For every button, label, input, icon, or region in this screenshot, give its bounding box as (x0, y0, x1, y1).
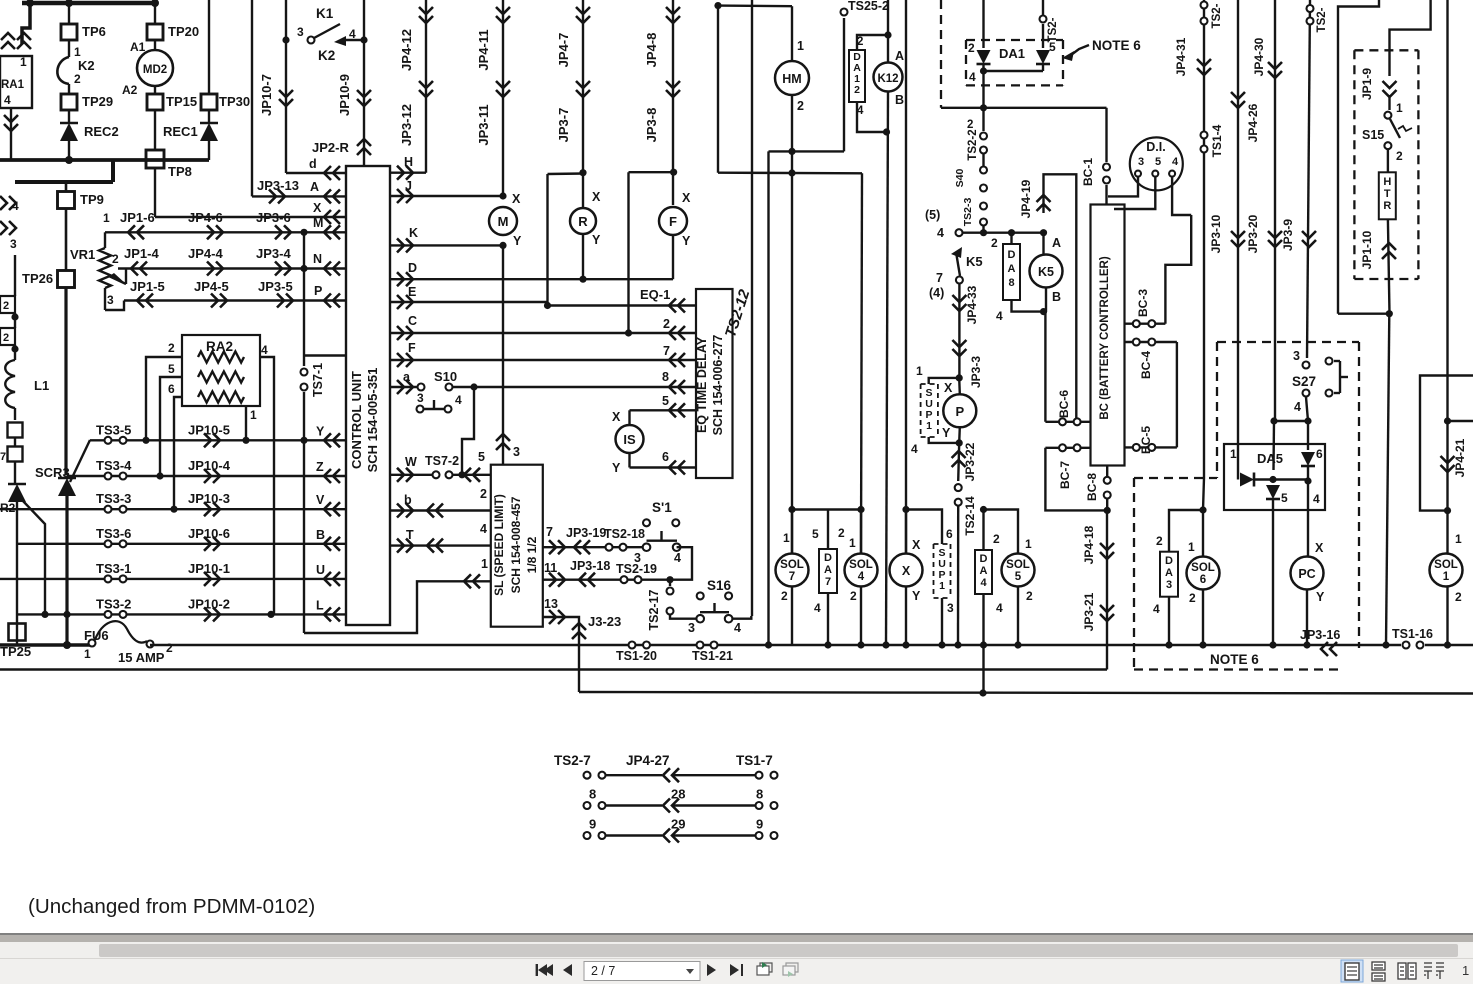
svg-text:4: 4 (858, 571, 865, 583)
wire x752 long vertical (751, 0, 753, 616)
test point TP20 (147, 24, 163, 40)
svg-text:JP10-2: JP10-2 (188, 596, 230, 611)
relay K5 coil (1042, 233, 1044, 254)
test point TP25 (9, 624, 26, 641)
wire MD2 branch upper (154, 3, 156, 24)
wire BC-1 drop (1105, 108, 1107, 162)
connector JP3-5 arrow (277, 294, 284, 308)
wire row L TS3-2 JP10-2 (18, 613, 346, 615)
svg-text:(4): (4) (929, 286, 944, 300)
vertical service wire x547 (546, 174, 548, 306)
svg-text:F: F (669, 214, 677, 229)
wire x793 SOL7 column (791, 173, 793, 554)
svg-text:X: X (612, 410, 621, 424)
svg-text:SOL: SOL (1434, 559, 1458, 571)
wire TS25-2 drop (843, 18, 845, 151)
svg-text:W: W (405, 455, 417, 469)
terminal row 3 of jumper block (584, 832, 591, 839)
svg-text:4: 4 (911, 442, 918, 456)
svg-text:4: 4 (455, 393, 462, 407)
svg-text:TS1-16: TS1-16 (1392, 627, 1433, 641)
wire x906 long vertical (905, 0, 907, 554)
svg-text:7: 7 (936, 271, 943, 285)
dashed boundary x941 (940, 0, 942, 108)
svg-text:2: 2 (993, 532, 1000, 546)
svg-text:JP3-12: JP3-12 (399, 104, 414, 146)
wire bus1 main solenoid bus (150, 644, 1401, 646)
terminal TS1-20 (629, 642, 636, 649)
diode assembly DA5 box (1224, 444, 1325, 510)
svg-text:T: T (1384, 188, 1391, 200)
wire RA1 riser staircase (22, 3, 30, 44)
svg-text:TS2-18: TS2-18 (604, 527, 645, 541)
column JP4-30 JP3-20 (1274, 0, 1276, 421)
svg-text:Y: Y (513, 234, 522, 248)
wire DI pin3 (1108, 177, 1138, 196)
svg-text:TS1-21: TS1-21 (692, 649, 733, 663)
svg-text:K5: K5 (1038, 265, 1054, 279)
svg-text:TS7-2: TS7-2 (425, 454, 459, 468)
svg-text:Z: Z (316, 460, 324, 474)
svg-text:JP10-9: JP10-9 (337, 74, 352, 116)
svg-text:5: 5 (478, 450, 485, 464)
motor lead JP4-11 JP3-11 column (502, 0, 504, 196)
svg-text:2: 2 (854, 84, 860, 96)
resistor network RA2 box (182, 335, 260, 406)
svg-text:1: 1 (103, 211, 110, 225)
svg-text:d: d (309, 157, 317, 171)
connector JP10-6 arrow (204, 537, 211, 551)
svg-text:1: 1 (1443, 571, 1450, 583)
svg-text:TP8: TP8 (168, 164, 192, 179)
svg-text:JP4-8: JP4-8 (644, 33, 659, 68)
svg-text:15 AMP: 15 AMP (118, 650, 165, 665)
svg-text:6: 6 (1200, 574, 1206, 586)
terminal BC-3 row (1125, 323, 1166, 325)
svg-text:A: A (1165, 567, 1173, 579)
svg-text:3: 3 (107, 293, 114, 307)
svg-text:D.I.: D.I. (1146, 140, 1165, 154)
resistor RA1 box (0, 56, 32, 108)
svg-text:JP4-4: JP4-4 (188, 246, 223, 261)
wire right staircase upper (1338, 0, 1379, 314)
svg-text:13: 13 (544, 597, 558, 611)
diode DA1 right (1042, 24, 1044, 48)
wire HM top link (791, 6, 793, 61)
svg-text:SCH 154-008-457: SCH 154-008-457 (509, 496, 523, 593)
next page (707, 964, 716, 976)
svg-text:N: N (313, 252, 322, 266)
wire S16 to x752 riser (732, 616, 751, 619)
svg-text:H: H (1383, 176, 1391, 188)
svg-text:4: 4 (1172, 156, 1179, 168)
connector JP10-9 chevron (357, 90, 371, 97)
svg-text:3: 3 (297, 25, 304, 39)
svg-text:BC-8: BC-8 (1085, 473, 1099, 501)
window icons (757, 963, 772, 975)
svg-text:A: A (1008, 263, 1016, 275)
lead JP4-8 JP3-8 column (672, 0, 674, 205)
wire row N JP1-4 JP4-4 JP3-4 (118, 267, 346, 269)
wire JP10-7 drop from K1 (285, 40, 287, 173)
connector JP10-2 arrow (204, 607, 211, 621)
svg-text:1: 1 (1462, 963, 1469, 978)
connector JP3-6 arrow (275, 225, 282, 239)
svg-text:K5: K5 (966, 254, 983, 269)
svg-text:JP3-8: JP3-8 (644, 108, 659, 143)
vertical B service wire x304 (303, 232, 305, 355)
connector JP10-5 arrow (204, 433, 211, 447)
svg-text:4: 4 (1294, 400, 1301, 414)
right layout icons (1341, 960, 1363, 982)
svg-text:2: 2 (850, 589, 857, 603)
wire S'1 to TS2-19 loop (670, 547, 692, 580)
svg-text:6: 6 (946, 527, 953, 541)
svg-text:JP3-19: JP3-19 (566, 526, 606, 540)
test point TP30 (201, 94, 217, 110)
svg-text:1: 1 (250, 408, 257, 422)
svg-text:1: 1 (783, 531, 790, 545)
svg-text:2: 2 (3, 332, 9, 344)
wire dot row y509.5 (792, 508, 828, 510)
svg-text:TS2-17: TS2-17 (647, 589, 661, 630)
wire right bracket y375 (1420, 376, 1473, 511)
wire RA2 pin5 to Z row (160, 377, 182, 476)
resistor RA2 element 3 (198, 392, 244, 403)
wire M column to SL box (502, 245, 504, 464)
svg-text:4: 4 (996, 309, 1003, 323)
svg-text:8: 8 (589, 787, 596, 802)
svg-text:(5): (5) (925, 208, 940, 222)
wire RA1 to bus (10, 108, 12, 160)
svg-text:BC (BATTERY CONTROLLER): BC (BATTERY CONTROLLER) (1099, 256, 1111, 420)
node L row junctions (41, 611, 48, 618)
svg-text:Y: Y (1316, 590, 1325, 604)
connector JP10-4 arrow (204, 469, 211, 483)
wire JP4-19 link (1044, 174, 1077, 422)
svg-text:8: 8 (1008, 277, 1014, 289)
svg-text:A: A (824, 564, 832, 576)
svg-text:1: 1 (1396, 101, 1403, 115)
svg-text:A: A (310, 180, 319, 194)
svg-text:3: 3 (513, 445, 520, 459)
EQ time delay box SCH 154-006-277 (696, 289, 733, 478)
svg-text:4: 4 (734, 621, 741, 635)
lead JP4-12 JP3-12 column (425, 0, 427, 173)
connector JP4-21 chevron (1441, 456, 1455, 463)
svg-text:2: 2 (781, 589, 788, 603)
wire R2 gate diagonal (22, 500, 45, 614)
svg-text:Y: Y (612, 461, 621, 475)
wire x983 column mid (982, 108, 984, 131)
connector D.I. (1130, 137, 1183, 190)
svg-text:2: 2 (1455, 590, 1462, 604)
wire K5 row (962, 231, 1044, 233)
svg-text:TS3-4: TS3-4 (96, 458, 132, 473)
svg-text:A1: A1 (130, 40, 146, 54)
node top-left junctions (26, 0, 34, 7)
svg-text:X: X (944, 381, 953, 395)
svg-text:BC-1: BC-1 (1081, 158, 1095, 186)
terminal TS2-19 (621, 576, 628, 583)
svg-text:1: 1 (797, 39, 804, 53)
svg-text:X: X (313, 201, 322, 215)
wire column A lower to SOL6 (1203, 478, 1204, 510)
svg-text:3: 3 (688, 621, 695, 635)
svg-text:SCH 154-006-277: SCH 154-006-277 (711, 335, 725, 436)
svg-text:S15: S15 (1362, 128, 1384, 142)
wire BC-3 bracket to DI (1165, 215, 1191, 324)
svg-text:3: 3 (947, 601, 954, 615)
test point TP6 (61, 24, 77, 40)
svg-text:X: X (902, 564, 911, 578)
connector 3 chevron into SL (496, 443, 510, 450)
wire row M JP1-6 JP4-6 JP3-6 (105, 231, 346, 233)
wire row V TS3-3 JP10-3 (0, 508, 346, 510)
terminal TS3-2 (105, 611, 112, 618)
svg-text:7: 7 (0, 451, 6, 463)
svg-text:4: 4 (996, 601, 1003, 615)
motor MD2 (137, 50, 173, 86)
svg-text:JP10-7: JP10-7 (259, 74, 274, 116)
connector JP3-4 arrow (275, 262, 282, 276)
connector J3-23 chevron (572, 632, 586, 639)
svg-text:A: A (1052, 236, 1061, 250)
svg-text:6: 6 (1316, 447, 1323, 461)
column TS2 JP3-9 S27 (1307, 0, 1310, 358)
svg-text:1: 1 (1455, 532, 1462, 546)
svg-text:4: 4 (1153, 602, 1160, 616)
svg-text:4: 4 (937, 226, 944, 240)
svg-text:1: 1 (84, 647, 91, 661)
first page button (536, 964, 572, 976)
connector chevrons above RA1 (1, 42, 15, 49)
svg-text:JP4-31: JP4-31 (1174, 37, 1188, 76)
svg-text:Y: Y (912, 589, 921, 603)
rectifier REC2 (68, 110, 70, 122)
column JP4-31 TS1-4 JP3-10 (1203, 0, 1205, 478)
svg-text:RA1: RA1 (1, 79, 25, 91)
svg-text:X: X (1315, 541, 1324, 555)
column JP4-26 JP3-10 (1237, 0, 1239, 444)
svg-text:7: 7 (663, 344, 670, 358)
wire S10 to TS7-2 jog (462, 387, 474, 475)
terminal TS7-2 (433, 471, 440, 478)
terminal BC-6 row (1045, 421, 1090, 423)
svg-text:Y: Y (592, 233, 601, 247)
svg-text:2: 2 (1189, 591, 1196, 605)
svg-text:4: 4 (1313, 492, 1320, 506)
terminal TS3-6 (105, 540, 112, 547)
svg-text:JP1-4: JP1-4 (124, 246, 159, 261)
wire DA12 feeder (857, 35, 888, 50)
svg-text:2: 2 (838, 526, 845, 540)
svg-text:4: 4 (480, 522, 487, 536)
svg-text:VR1: VR1 (70, 247, 95, 262)
svg-text:3: 3 (10, 237, 17, 251)
wire left rail upper segment (14, 255, 16, 296)
svg-text:IS: IS (623, 432, 636, 447)
wire thick bottom bus left (0, 643, 90, 647)
svg-text:TS2-14: TS2-14 (963, 496, 977, 536)
svg-text:JP4-11: JP4-11 (476, 29, 491, 70)
speed limit box SL SCH 154-008-457 (491, 465, 543, 627)
svg-text:PC: PC (1298, 567, 1315, 581)
wire JP4-21 column (1446, 0, 1448, 649)
svg-text:L1: L1 (34, 378, 49, 393)
svg-text:2: 2 (797, 99, 804, 113)
svg-text:4: 4 (814, 601, 821, 615)
svg-text:BC-3: BC-3 (1136, 289, 1150, 317)
wire row Y TS3-5 JP10-5 (90, 439, 346, 441)
svg-text:JP4-27: JP4-27 (626, 753, 670, 768)
connector JP3-3 chevron (952, 340, 966, 347)
wire row B TS3-6 JP10-6 (18, 543, 346, 545)
svg-text:TP30: TP30 (219, 94, 250, 109)
svg-text:SOL: SOL (849, 559, 873, 571)
wire S27 to DA5 (1274, 420, 1308, 422)
terminal TS3-1 (105, 575, 112, 582)
svg-text:1: 1 (1188, 540, 1195, 554)
svg-text:JP4-18: JP4-18 (1082, 525, 1096, 564)
svg-text:8: 8 (662, 370, 669, 384)
terminal TS2 top right (1040, 16, 1047, 23)
wire top-left bus (22, 1, 155, 6)
svg-text:K12: K12 (877, 73, 898, 85)
dashed boundary outer (1217, 341, 1359, 343)
svg-text:D: D (1165, 555, 1173, 567)
svg-text:JP3-18: JP3-18 (570, 559, 610, 573)
connector JP4-6 arrow (207, 225, 214, 239)
svg-text:2: 2 (663, 317, 670, 331)
svg-text:9: 9 (589, 817, 596, 832)
wire y313 link (1338, 313, 1389, 315)
test point TP9 (65, 182, 68, 193)
svg-text:6: 6 (662, 450, 669, 464)
terminal BC-5 row (1125, 446, 1177, 448)
svg-text:4: 4 (980, 577, 987, 589)
wire DI pin4 (1172, 177, 1191, 215)
svg-text:7: 7 (789, 571, 795, 583)
svg-text:L: L (316, 598, 324, 612)
wire row Z TS3-4 JP10-4 (67, 475, 346, 477)
svg-text:JP10-5: JP10-5 (188, 422, 230, 437)
svg-text:2: 2 (991, 236, 998, 250)
svg-text:REC1: REC1 (163, 124, 198, 139)
svg-text:1: 1 (849, 536, 856, 550)
svg-text:D: D (1008, 249, 1016, 261)
wire RA2 pin2 to Y row (146, 357, 182, 440)
svg-text:BC-6: BC-6 (1057, 390, 1071, 418)
wire riser x113 (111, 160, 115, 182)
svg-text:SCH 154-005-351: SCH 154-005-351 (365, 368, 380, 473)
UI separator line (0, 933, 1473, 935)
svg-text:JP4-33: JP4-33 (965, 285, 979, 324)
svg-text:EQ TIME DELAY: EQ TIME DELAY (695, 336, 709, 433)
svg-text:TS2-: TS2- (1211, 3, 1223, 28)
scrollbar track (0, 942, 1473, 958)
svg-text:HM: HM (782, 72, 801, 86)
svg-text:D: D (980, 553, 988, 565)
svg-text:X: X (682, 191, 691, 205)
svg-text:REC2: REC2 (84, 124, 119, 139)
connector JP10-7 chevron (279, 90, 293, 97)
svg-text:X: X (512, 192, 521, 206)
wire TP9 to TP26 (65, 208, 68, 272)
test point TP29 (68, 84, 70, 94)
svg-text:JP4-7: JP4-7 (556, 33, 571, 68)
svg-text:6: 6 (168, 382, 175, 396)
wire bus3 (579, 692, 1473, 694)
wire bus y107.8 (941, 107, 1107, 109)
svg-text:TS2-7: TS2-7 (554, 753, 591, 768)
diode DA1 left (982, 0, 984, 48)
terminal TS25-2 (841, 9, 848, 16)
svg-text:TS2-2: TS2-2 (967, 129, 979, 160)
svg-text:JP3-9: JP3-9 (1281, 219, 1295, 251)
connector JP10-1 arrow (204, 572, 211, 586)
wire column C upper feed (1272, 421, 1275, 470)
terminal row 1 of jumper block (584, 772, 591, 779)
svg-text:7: 7 (825, 576, 831, 588)
svg-text:2: 2 (480, 487, 487, 501)
wire K1 left stub to top (285, 0, 287, 40)
connector JP4-5 arrow (211, 294, 218, 308)
svg-text:R: R (578, 214, 588, 229)
wire bus2 (0, 668, 1107, 670)
svg-text:JP4-30: JP4-30 (1252, 37, 1266, 76)
test point TP15 (147, 94, 163, 110)
svg-text:TS1-20: TS1-20 (616, 649, 657, 663)
connector JP1-4 arrow (140, 262, 147, 276)
dashed heater box (1354, 49, 1418, 51)
svg-text:DA5: DA5 (1257, 451, 1283, 466)
svg-text:1: 1 (20, 55, 27, 69)
connector JP1-5 arrow (146, 294, 153, 308)
svg-text:B: B (895, 93, 904, 107)
svg-text:B: B (316, 528, 325, 542)
svg-text:SOL: SOL (1006, 559, 1030, 571)
terminal TS2-18 (606, 544, 613, 551)
svg-text:TS1-7: TS1-7 (736, 753, 773, 768)
wire a row to EQ pin8 (474, 386, 696, 388)
svg-text:JP3-16: JP3-16 (1300, 628, 1340, 642)
wire x861 SOL4 column (861, 173, 862, 554)
svg-text:V: V (316, 493, 325, 507)
wire SL pin1 feeder (304, 581, 462, 633)
svg-text:5: 5 (168, 362, 175, 376)
wire RA2 pin4 down to L row (260, 357, 274, 614)
test point square lower left rail (8, 447, 23, 462)
svg-text:1: 1 (916, 364, 923, 378)
svg-text:TS2-: TS2- (1047, 17, 1059, 42)
svg-text:JP3-7: JP3-7 (556, 108, 571, 143)
wire RA2 pin1 to Y row (245, 406, 247, 440)
wire SCR3 gate diagonal to Y row (70, 440, 90, 482)
svg-text:RA2: RA2 (206, 339, 233, 354)
box left edge component 2 lower (0, 328, 15, 345)
svg-text:TS3-6: TS3-6 (96, 526, 131, 541)
svg-text:4: 4 (261, 343, 268, 357)
svg-text:TP9: TP9 (80, 192, 104, 207)
svg-text:4: 4 (674, 551, 681, 565)
svg-text:JP1-10: JP1-10 (1360, 230, 1374, 269)
heater HTR (1379, 172, 1396, 219)
svg-text:TP26: TP26 (22, 271, 53, 286)
svg-text:5: 5 (662, 394, 669, 408)
svg-text:CONTROL UNIT: CONTROL UNIT (349, 371, 364, 469)
svg-text:F: F (408, 341, 416, 355)
